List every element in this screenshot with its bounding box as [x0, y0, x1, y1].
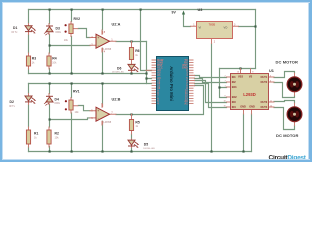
junction R3 column / ground rail: [49, 72, 51, 74]
wire arduino pin to IN3: [195, 81, 227, 103]
svg-text:U3: U3: [198, 8, 203, 12]
wire lower channel supply rail: [29, 83, 147, 85]
arduino pro mini U2 module: [157, 57, 189, 111]
svg-text:VI: VI: [199, 26, 202, 30]
junction D6 / ground rail: [130, 72, 132, 74]
junction EN1 tap: [218, 86, 220, 88]
svg-text:+: +: [97, 109, 99, 113]
arduino left pin stubs: [152, 60, 194, 104]
junction VSS tap: [239, 67, 241, 69]
wire OUT4 to motor2 bottom: [274, 108, 295, 130]
svg-text:IR Tx: IR Tx: [9, 105, 16, 108]
diode D5 led: [128, 140, 139, 148]
wire RV1 wiper to op-amp pin5: [78, 106, 90, 111]
svg-text:D1: D1: [13, 26, 17, 30]
potentiometer RV1: [65, 100, 73, 110]
wire U3 VO to 5V node: [239, 26, 256, 28]
svg-text:VO: VO: [224, 26, 228, 30]
junction U3 GND / bottom rail: [210, 150, 212, 152]
junction op-amp A V+ / top rail: [102, 9, 104, 11]
wire top 5V rail: [29, 9, 256, 11]
junction D5 / bottom rail: [130, 150, 132, 152]
wire D3 column: [49, 10, 51, 74]
svg-text:-: -: [98, 116, 99, 120]
9V power arrow: [182, 11, 185, 15]
svg-text:9V: 9V: [172, 10, 177, 14]
wire EN1 EN2 feed: [220, 69, 227, 98]
svg-text:D6: D6: [117, 66, 121, 70]
diode D4 photodiode: [44, 96, 53, 105]
junction op-amp A V- / ground rail: [101, 72, 103, 74]
svg-text:IN4: IN4: [232, 106, 237, 109]
op-amp U2:B: [96, 104, 110, 124]
svg-text:D5: D5: [144, 142, 148, 146]
svg-text:GND: GND: [249, 106, 255, 109]
svg-text:DC MOTOR: DC MOTOR: [276, 133, 299, 138]
diode D6 led: [128, 64, 139, 72]
junction VO node 5V: [254, 25, 256, 27]
svg-text:R3: R3: [32, 57, 36, 61]
wire RV2 wiper to op-amp pin3: [78, 29, 90, 38]
svg-text:VSS: VSS: [238, 76, 243, 79]
node A wire to op-amp pin2: [50, 45, 91, 47]
wire RV1 column: [71, 84, 73, 152]
svg-text:D2: D2: [10, 100, 14, 104]
wire vertical to arduino A0: [147, 42, 152, 84]
junction ground rail / A0 drop: [145, 72, 147, 74]
junction op-amp B V+ / lower supply rail: [101, 82, 103, 84]
pin stubs (red leads): [29, 22, 295, 148]
svg-text:OUT4: OUT4: [261, 106, 268, 109]
svg-text:IR Tx: IR Tx: [12, 31, 19, 34]
junction RV2 / top rail: [71, 9, 73, 11]
svg-text:IRRx: IRRx: [56, 31, 62, 34]
svg-text:R2: R2: [55, 132, 59, 136]
svg-text:-: -: [98, 43, 99, 47]
svg-text:+: +: [97, 36, 99, 40]
svg-text:D3: D3: [56, 26, 60, 30]
regulator U3: [197, 22, 233, 39]
wire D5 bottom to ground rail: [131, 134, 133, 152]
svg-text:U2:B: U2:B: [112, 98, 121, 102]
wire 9V to U3 VI: [184, 14, 191, 26]
wire op-amp A power: [102, 10, 104, 74]
svg-text:U1: U1: [269, 69, 274, 73]
border frame: [0, 0, 312, 162]
svg-text:OUT1: OUT1: [261, 76, 268, 79]
wire ground rail upper channel: [29, 73, 147, 75]
svg-text:EN2: EN2: [232, 96, 237, 99]
svg-text:IN1: IN1: [232, 76, 237, 79]
svg-text:DIODE-LED: DIODE-LED: [143, 148, 155, 150]
label arduino: [157, 58, 164, 106]
resistor R3: [26, 56, 30, 66]
wire OUT3 to motor2 top: [274, 101, 295, 104]
junction D3 column / top rail: [49, 9, 51, 11]
junction R6 / op-amp A output: [130, 40, 132, 42]
junction R2 column / bottom rail: [49, 150, 51, 152]
resistor R1: [26, 130, 30, 144]
svg-text:A1: A1: [184, 101, 188, 105]
diode D2: [25, 96, 36, 104]
svg-text:L293D: L293D: [243, 92, 256, 97]
svg-text:R5: R5: [135, 121, 139, 125]
wire op-amp A output: [116, 41, 147, 43]
wire op-amp B power: [102, 84, 104, 152]
svg-text:RV1: RV1: [73, 89, 80, 93]
wire VSS VS feed: [220, 68, 256, 70]
wire op-amp B output to arduino: [116, 86, 204, 115]
svg-text:VS: VS: [249, 76, 253, 79]
junction R5 / op-amp B output: [130, 113, 132, 115]
svg-text:IN3: IN3: [232, 101, 237, 104]
wire bottom ground rail: [29, 151, 252, 153]
diode D3 photodiode: [44, 26, 53, 35]
svg-text:IN2: IN2: [232, 81, 237, 84]
wire 5V rail right drop to VO node and VS: [255, 10, 257, 69]
svg-text:R4: R4: [52, 57, 56, 61]
svg-text:OUT3: OUT3: [261, 101, 268, 104]
svg-text:OUT2: OUT2: [261, 81, 268, 84]
wire R6 D6 bottom to ground rail: [131, 72, 133, 74]
wire L293D GND pins to bottom rail: [244, 114, 252, 152]
wire OUT1 to motor1 top: [274, 72, 295, 78]
svg-text:LM358: LM358: [104, 121, 112, 124]
svg-text:DC MOTOR: DC MOTOR: [276, 59, 299, 64]
svg-text:Arduino Pro Mini: Arduino Pro Mini: [169, 66, 174, 101]
dc motor 2: [287, 107, 302, 122]
resistor R5: [129, 120, 133, 131]
node B wire to op-amp pin6: [50, 118, 91, 120]
motor driver L293D U1: [231, 74, 269, 110]
svg-text:DIODE-LED: DIODE-LED: [112, 71, 124, 73]
svg-text:R6: R6: [135, 49, 139, 53]
junction A0 branch: [145, 77, 147, 79]
wire D4 column: [49, 84, 51, 152]
junction op-amp B V- / bottom rail: [101, 150, 103, 152]
junction RV1 bottom / bottom rail: [71, 150, 73, 152]
op-amp U2:A: [96, 31, 110, 51]
svg-text:RV2: RV2: [74, 17, 81, 21]
resistor R2: [47, 130, 51, 144]
svg-text:D4: D4: [55, 97, 59, 101]
svg-text:GND: GND: [240, 106, 246, 109]
junction RV1 / lower supply rail: [71, 82, 73, 84]
resistor R6: [129, 48, 133, 60]
wire 5V to arduino VCC: [141, 10, 152, 71]
junction RV2 bottom / ground rail: [71, 72, 73, 74]
wire arduino pin to IN1: [195, 76, 227, 78]
resistor R4: [47, 56, 51, 66]
diode D1: [25, 26, 36, 34]
svg-text:U2:A: U2:A: [112, 23, 121, 27]
wire arduino pin to IN4: [195, 84, 227, 108]
junction VCC feed / top rail: [140, 9, 142, 11]
wire OUT2 to motor1 bottom: [274, 83, 295, 98]
dc motor 1: [287, 77, 302, 92]
svg-text:IRRx: IRRx: [55, 102, 61, 105]
wire D1 column: [28, 10, 30, 74]
junction node B / D4 column: [49, 118, 51, 120]
junction D4 column / lower supply rail: [49, 82, 51, 84]
svg-text:EN1: EN1: [232, 86, 237, 89]
wire U3 GND down to bottom rail: [211, 44, 213, 152]
wire D2 column: [28, 84, 30, 152]
potentiometer RV2: [65, 24, 74, 34]
junction L293D GND / bottom rail: [242, 150, 244, 152]
wire RV2 column: [71, 10, 73, 74]
junction node A / D3 column: [49, 44, 51, 46]
wire arduino pin to IN2: [195, 79, 227, 83]
svg-text:R1: R1: [34, 132, 38, 136]
svg-text:7805: 7805: [209, 22, 216, 26]
